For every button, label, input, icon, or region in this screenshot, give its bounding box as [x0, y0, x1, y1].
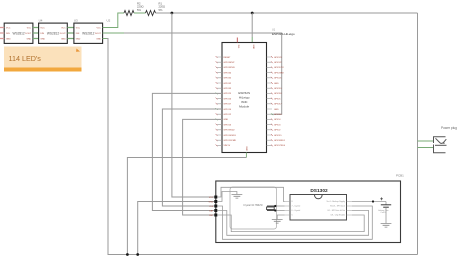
wire 5V top rail to right corner: [156, 12, 418, 14]
WS2812 LED module U5 (leftmost, pins cut at edge): [4, 23, 33, 43]
wire 5V rail branch down to RTC VCC pad: [172, 13, 216, 197]
wire battery to ground: [385, 207, 387, 223]
power plug J1 symbol: [434, 137, 447, 153]
svg-text:GPIO23: GPIO23: [274, 57, 282, 59]
svg-text:GND: GND: [224, 119, 229, 121]
svg-text:ESP32S-HiLetgo: ESP32S-HiLetgo: [272, 32, 295, 36]
svg-text:GPIO36/VP: GPIO36/VP: [224, 62, 235, 64]
svg-text:GPIO1/TX: GPIO1/TX: [274, 67, 284, 69]
svg-text:GPIO9/SD2: GPIO9/SD2: [224, 130, 236, 132]
junction node at rail/ESP 5V branch: [251, 12, 254, 15]
svg-text:GND: GND: [209, 201, 214, 203]
svg-text:5%: 5%: [159, 8, 163, 12]
svg-text:DIN: DIN: [6, 33, 10, 35]
svg-text:GPIO27: GPIO27: [224, 104, 232, 106]
wire crystal to DS1302 X1: [275, 205, 284, 207]
ESP32 left pin tick marks: [216, 56, 218, 146]
wires U4-U3 (VCC,DOUT,GND): [67, 28, 74, 39]
junction crystal X1: [274, 205, 276, 207]
svg-text:DOUT: DOUT: [60, 33, 67, 35]
wire pad VCC to DS1302 Vcc2: [217, 187, 284, 201]
svg-text:HiLetgo: HiLetgo: [239, 96, 250, 100]
svg-text:Vcc1 - Backup Supply: Vcc1 - Backup Supply: [327, 201, 346, 203]
svg-text:GND: GND: [252, 45, 254, 50]
svg-text:GND: GND: [246, 146, 248, 151]
wires U5-U4 (VCC,DOUT,GND): [33, 28, 39, 39]
svg-text:GPIO14: GPIO14: [224, 109, 232, 111]
svg-text:8: 8: [292, 201, 293, 203]
svg-text:WS2812: WS2812: [47, 31, 59, 35]
svg-text:GND: GND: [6, 39, 11, 41]
wire U3 VCC up to resistor row: [103, 13, 124, 28]
svg-text:GPIO18: GPIO18: [274, 93, 282, 95]
wire pad CLK around bottom to DS1302 SCLK: [217, 206, 372, 239]
svg-text:Cell 3v: Cell 3v: [381, 212, 387, 214]
wire pad GND to internal ground: [217, 192, 237, 202]
junction crystal X2: [274, 209, 276, 211]
note "114 LED's": [4, 47, 82, 72]
svg-text:GPIO25: GPIO25: [224, 93, 232, 95]
ESP32 right pin tick marks: [271, 56, 273, 146]
svg-text:SCLK - SPI Clock: SCLK - SPI Clock: [330, 206, 345, 208]
ESP32 right pin stubs: [267, 57, 273, 145]
junction node at rail/RTC VCC branch: [171, 12, 174, 15]
svg-text:DAT: DAT: [209, 209, 214, 212]
wire RTC GND pad to bottom ground rail: [138, 202, 216, 255]
svg-text:GPIO34: GPIO34: [224, 72, 232, 74]
wire R2-R1: [134, 12, 146, 14]
svg-text:114 LED's: 114 LED's: [9, 54, 42, 63]
WS2812 LED module U4: [39, 19, 68, 44]
svg-text:RST: RST: [209, 215, 214, 217]
DS1302 notch: [315, 195, 323, 199]
plug tip contact dot: [443, 143, 444, 144]
svg-text:WS2812: WS2812: [12, 31, 24, 35]
svg-text:GPIO22: GPIO22: [274, 62, 282, 64]
svg-text:GPIO21: GPIO21: [274, 78, 282, 80]
svg-text:GPIO13: GPIO13: [224, 124, 232, 126]
wire DS1302 Vcc1 to backup battery: [352, 201, 386, 203]
WS2812 LED module U3: [74, 19, 103, 44]
resistor R1: [146, 11, 156, 16]
svg-text:Module: Module: [239, 105, 249, 109]
crystal Y1: [267, 206, 276, 211]
DS1302 chip body: [290, 195, 347, 221]
svg-text:6 - Crystal: 6 - Crystal: [292, 209, 301, 212]
svg-text:U2: U2: [107, 19, 111, 23]
battery BT1 coin cell: [385, 202, 387, 205]
svg-text:5: 5: [292, 215, 293, 217]
svg-text:GPIO33: GPIO33: [224, 88, 232, 90]
wire rail down to ESP32 5V top pin: [251, 13, 253, 37]
svg-text:DOUT: DOUT: [95, 33, 102, 35]
wire rail right side down to power plug / bottom: [417, 13, 419, 255]
wire plug sleeve down rail: [418, 147, 434, 149]
wire ESP GND to bottom ground rail: [127, 158, 246, 255]
RTC pad labels: [209, 197, 214, 217]
svg-text:WiFi: WiFi: [241, 100, 247, 104]
svg-text:GPIO32: GPIO32: [224, 83, 232, 85]
svg-text:GND: GND: [27, 39, 32, 41]
wire U3 DOUT long data wire to ESP32 GPIO16: [103, 32, 124, 34]
svg-text:GND: GND: [96, 39, 101, 41]
svg-text:5%: 5%: [137, 8, 141, 12]
svg-text:ESP32S: ESP32S: [238, 91, 250, 95]
svg-text:GPIO2: GPIO2: [274, 130, 281, 132]
svg-text:GPIO5: GPIO5: [274, 98, 281, 100]
svg-text:GND: GND: [40, 39, 45, 41]
ground symbol (battery): [381, 224, 392, 228]
ESP32 bottom pin GND: [245, 153, 247, 158]
wire pad DAT around bottom to DS1302 I/O: [217, 211, 368, 236]
svg-text:VCC: VCC: [209, 197, 214, 199]
svg-text:DOUT: DOUT: [25, 33, 32, 35]
ESP32 left pin labels: [224, 57, 237, 147]
svg-text:GND: GND: [61, 39, 66, 41]
svg-text:Power plug: Power plug: [441, 126, 457, 130]
junction RTC GND / ground rail: [136, 253, 139, 256]
svg-text:GPIO35: GPIO35: [224, 78, 232, 80]
svg-text:U4: U4: [39, 19, 43, 23]
svg-text:VCC: VCC: [97, 28, 102, 30]
svg-text:GPIO7/SD0: GPIO7/SD0: [274, 145, 286, 147]
svg-text:VCC: VCC: [6, 28, 11, 30]
svg-text:GPIO8/SD1: GPIO8/SD1: [274, 140, 286, 142]
svg-text:GPIO3/RX: GPIO3/RX: [274, 72, 284, 74]
RTC module pads (VCC,GND,CLK,DAT,RST): [214, 196, 217, 217]
svg-text:DIN: DIN: [76, 33, 80, 35]
wire ESP GPIO25 to RTC DAT pad: [152, 93, 222, 210]
ESP32 top pin 3V3 (unconnected): [236, 38, 238, 43]
svg-text:WS2812: WS2812: [82, 31, 94, 35]
svg-text:GPIO0: GPIO0: [274, 124, 281, 126]
svg-text:VCC: VCC: [61, 28, 66, 30]
svg-text:CLK: CLK: [209, 206, 214, 208]
svg-text:GPIO17: GPIO17: [274, 104, 282, 106]
wire U3 GND down to bottom ground rail: [103, 39, 418, 255]
svg-text:DS1302: DS1302: [310, 188, 328, 194]
svg-text:RESET: RESET: [224, 57, 232, 59]
svg-text:GND: GND: [274, 109, 279, 111]
svg-text:GND: GND: [76, 39, 81, 41]
DS1302 right pin stubs: [347, 202, 353, 216]
svg-text:VIN 5V: VIN 5V: [224, 145, 231, 147]
svg-text:GPIO26: GPIO26: [224, 98, 232, 100]
inner grouping outline (crystal section): [230, 187, 277, 229]
wire ESP GPIO12 to RTC RST pad: [183, 119, 222, 215]
svg-text:7 - Crystal: 7 - Crystal: [292, 205, 301, 208]
ESP32 U1 body: [222, 43, 267, 153]
wire stubs into U5 from left edge: [0, 28, 4, 39]
svg-text:GPIO10/SD3: GPIO10/SD3: [224, 135, 237, 137]
wire ESP GPIO27 to RTC CLK pad: [162, 109, 222, 206]
resistor R2: [124, 11, 134, 16]
wire 5V rail to plug tip: [418, 140, 434, 142]
DS1302 right pin labels: [327, 201, 346, 217]
ground symbol (module, top-left): [232, 195, 243, 199]
svg-text:I/O - SPI Data In/Out: I/O - SPI Data In/Out: [328, 209, 346, 212]
battery BT1 plus mark: [380, 197, 383, 200]
svg-text:GPIO11/CMD: GPIO11/CMD: [224, 140, 237, 142]
ESP32 right pin labels: [274, 57, 286, 147]
svg-text:Crystal 32.768kHz: Crystal 32.768kHz: [243, 204, 263, 207]
ground symbol (below chip GND pin): [277, 215, 284, 219]
svg-text:VCC: VCC: [76, 28, 81, 30]
svg-text:VCC: VCC: [27, 28, 32, 30]
wire crystal to DS1302 X2: [275, 210, 284, 212]
svg-text:CE - Chip Enable: CE - Chip Enable: [330, 215, 345, 217]
svg-text:GPIO39/VN: GPIO39/VN: [224, 67, 235, 69]
svg-text:VCC: VCC: [40, 28, 45, 30]
DS1302 left pin stubs: [285, 202, 291, 216]
ESP32 left pin stubs: [217, 57, 223, 145]
junction ESP GND / ground rail: [126, 253, 129, 256]
svg-text:U3: U3: [74, 19, 78, 23]
junction battery supply: [372, 200, 374, 202]
DS1302 left pin labels: [292, 201, 301, 217]
svg-text:PCB1: PCB1: [396, 174, 404, 178]
svg-text:GPIO19: GPIO19: [274, 88, 282, 90]
svg-text:GPIO15: GPIO15: [274, 135, 282, 137]
svg-text:GPIO12: GPIO12: [224, 114, 232, 116]
svg-text:GPIO16: GPIO16: [274, 114, 282, 116]
wire pad RST around bottom to DS1302 CE: [217, 215, 364, 232]
svg-text:GND: GND: [274, 83, 279, 85]
svg-text:GPIO4: GPIO4: [274, 119, 281, 121]
svg-text:DIN: DIN: [40, 33, 44, 35]
